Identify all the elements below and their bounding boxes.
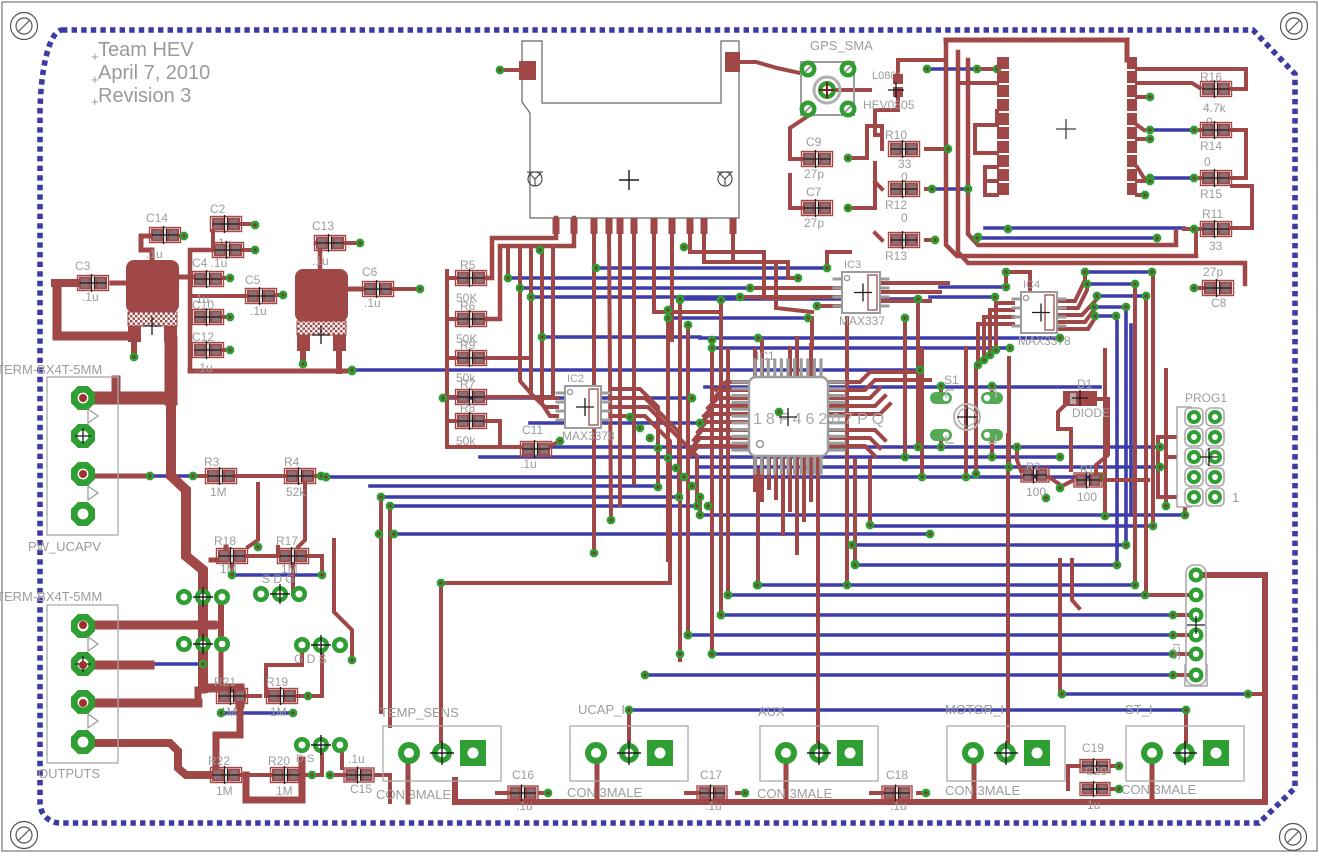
via [1190, 174, 1198, 182]
via [684, 631, 692, 639]
svg-text:IC3: IC3 [844, 259, 861, 271]
wire [1158, 435, 1186, 439]
via [986, 351, 994, 359]
wire [700, 414, 749, 424]
via [226, 313, 234, 321]
wire [147, 474, 193, 478]
wire [984, 317, 1013, 360]
resistor R14 [1201, 123, 1232, 138]
wire [757, 583, 1135, 587]
svg-text:CON 3MALE: CON 3MALE [376, 787, 451, 802]
svg-text:TERM-BX4T-5MM: TERM-BX4T-5MM [0, 589, 102, 604]
via [1182, 706, 1190, 714]
wire [920, 350, 924, 477]
svg-text:50k: 50k [456, 434, 476, 448]
svg-text:R22: R22 [208, 754, 230, 768]
wire [926, 147, 948, 151]
via [688, 482, 696, 490]
wire [990, 386, 994, 393]
svg-text:.1u: .1u [364, 296, 381, 310]
wire [880, 281, 948, 285]
wire [218, 605, 224, 625]
wire [1056, 316, 1095, 329]
wire [352, 368, 920, 372]
wire [618, 232, 622, 505]
wire [447, 395, 456, 399]
wire [712, 652, 1173, 656]
wire [1006, 272, 1030, 290]
svg-text:+: + [91, 49, 99, 64]
via [664, 454, 672, 462]
wire [750, 286, 842, 290]
wire [248, 547, 278, 556]
via [1146, 93, 1154, 101]
wire [211, 547, 226, 560]
wire [788, 348, 792, 377]
mounting hole [11, 822, 38, 849]
wire [918, 791, 926, 795]
wire [83, 699, 198, 708]
wire [940, 285, 1006, 289]
svg-text:.1u: .1u [196, 361, 213, 375]
svg-text:R5: R5 [460, 258, 476, 272]
svg-text:R16: R16 [1200, 70, 1222, 84]
resistor R21 [217, 689, 248, 704]
wire [760, 456, 764, 500]
transistor Q3 (DPAK) [126, 260, 179, 313]
via [672, 464, 680, 472]
via [289, 709, 297, 717]
wire [83, 392, 171, 405]
svg-text:.1u: .1u [348, 752, 365, 766]
wire [977, 236, 1157, 240]
via [189, 472, 197, 480]
SD pins [553, 218, 560, 234]
wire [845, 318, 849, 585]
via [348, 366, 356, 374]
wire [704, 406, 749, 416]
via [1142, 292, 1150, 300]
capacitor C16 [508, 786, 538, 800]
svg-text:R21: R21 [214, 675, 236, 689]
via [991, 293, 999, 301]
wire [809, 345, 813, 377]
wire [1137, 179, 1150, 183]
via [708, 650, 716, 658]
via [717, 611, 725, 619]
wire [700, 513, 1185, 517]
wire [670, 232, 674, 340]
via [914, 443, 922, 451]
via [536, 246, 544, 254]
via [823, 264, 831, 272]
wire [312, 745, 322, 775]
capacitor C17 [697, 786, 727, 800]
wire [455, 780, 1265, 802]
transistor pads Q [296, 739, 308, 751]
wire [1173, 613, 1188, 617]
via [592, 264, 600, 272]
wire [1145, 593, 1188, 597]
capacitor C20 [1080, 783, 1110, 796]
wire [760, 340, 764, 377]
via [1083, 280, 1091, 288]
wire [753, 350, 757, 377]
svg-text:ST_I: ST_I [1125, 702, 1152, 717]
wire [848, 163, 875, 208]
wire [298, 645, 322, 696]
capacitor C5 [246, 289, 277, 304]
via [1122, 303, 1130, 311]
via [636, 424, 644, 432]
wire [447, 356, 456, 360]
svg-text:R7: R7 [460, 377, 476, 391]
wire [964, 348, 968, 477]
via [590, 549, 598, 557]
wire [1164, 370, 1168, 506]
via [988, 382, 996, 390]
via [1013, 443, 1021, 451]
via [254, 543, 262, 551]
via [993, 65, 1001, 73]
wire [248, 694, 260, 698]
via [717, 296, 725, 304]
svg-text:OUTPUTS: OUTPUTS [38, 766, 100, 781]
mounting hole [1281, 13, 1308, 40]
wire [712, 346, 1010, 350]
via [804, 314, 812, 322]
wire [690, 633, 1173, 637]
svg-text:Revision 3: Revision 3 [98, 85, 191, 107]
wire [680, 297, 918, 301]
wire [388, 506, 392, 726]
wire [232, 573, 322, 577]
wire [990, 310, 1013, 355]
via [496, 66, 504, 74]
svg-text:S1: S1 [944, 373, 959, 387]
wire [1058, 404, 1071, 470]
svg-text:33: 33 [898, 157, 912, 171]
svg-text:C19: C19 [1082, 741, 1104, 755]
svg-text:CON 3MALE: CON 3MALE [945, 783, 1020, 798]
via [736, 293, 744, 301]
svg-text:TERM-BX4T-5MM: TERM-BX4T-5MM [0, 362, 102, 377]
svg-text:CON 3MALE: CON 3MALE [567, 785, 642, 800]
via [717, 611, 725, 619]
wire [487, 356, 531, 360]
wire [722, 613, 1173, 617]
via [746, 284, 754, 292]
svg-text:CON 3MALE: CON 3MALE [1121, 782, 1196, 797]
resistor R18 [217, 549, 248, 564]
wire [222, 315, 226, 319]
svg-text:C6: C6 [362, 265, 378, 279]
via [556, 437, 564, 445]
via [992, 346, 1000, 354]
svg-text:C15: C15 [350, 782, 372, 796]
wire [1151, 272, 1155, 526]
via [626, 413, 634, 421]
wire [447, 317, 456, 321]
via [1096, 473, 1104, 481]
via [684, 631, 692, 639]
wire [810, 318, 814, 348]
via [972, 470, 980, 478]
wire [340, 745, 344, 768]
resistor R19 [267, 689, 298, 704]
wire [1194, 128, 1200, 132]
wire [334, 540, 352, 660]
wire [487, 218, 574, 319]
wire [326, 475, 1100, 479]
wire [1095, 314, 1116, 318]
wire [487, 421, 523, 447]
svg-text:1M: 1M [216, 784, 233, 798]
svg-text:R4: R4 [284, 455, 300, 469]
resistor R3 [206, 469, 237, 484]
wire [406, 760, 411, 802]
wire [974, 367, 978, 474]
wire [222, 276, 226, 280]
svg-text:R9: R9 [460, 338, 476, 352]
via [676, 295, 684, 303]
via [348, 656, 356, 664]
wire [1156, 437, 1160, 497]
wire [300, 354, 306, 364]
wire [733, 232, 798, 278]
svg-text:1M: 1M [270, 705, 287, 719]
wire [788, 456, 792, 510]
wire [880, 299, 930, 303]
svg-text:SCI: SCI [1172, 643, 1183, 660]
via [625, 706, 633, 714]
wire [1194, 176, 1200, 180]
via [607, 516, 615, 524]
svg-text:52k: 52k [286, 485, 306, 499]
svg-text:R10: R10 [885, 128, 907, 142]
wire [1173, 673, 1188, 677]
wire [828, 438, 880, 448]
wire [211, 231, 215, 248]
wire [719, 300, 723, 615]
wire [1231, 186, 1252, 228]
via [322, 473, 330, 481]
svg-text:C18: C18 [886, 768, 908, 782]
via [974, 361, 982, 369]
via [308, 771, 316, 779]
wire [939, 441, 943, 447]
wire [531, 295, 740, 299]
via [1162, 502, 1170, 510]
wire [344, 241, 356, 245]
svg-text:R1: R1 [1080, 464, 1094, 476]
wire [190, 369, 352, 374]
svg-text:R6: R6 [460, 299, 476, 313]
via [680, 243, 688, 251]
svg-text:TEMP_SENS: TEMP_SENS [380, 705, 459, 720]
wire [926, 238, 935, 242]
via [851, 561, 859, 569]
wire [394, 287, 416, 291]
via [538, 333, 546, 341]
svg-text:MAX3378: MAX3378 [562, 429, 615, 443]
svg-text:C9: C9 [806, 135, 822, 149]
wire [83, 621, 213, 630]
via [544, 789, 552, 797]
wire [927, 187, 968, 191]
wire [809, 456, 813, 500]
svg-text:IC4: IC4 [1023, 279, 1040, 291]
via [964, 185, 972, 193]
via [416, 285, 424, 293]
via [664, 306, 672, 314]
wire [1112, 787, 1119, 791]
svg-text:.1u: .1u [890, 799, 907, 813]
svg-text:R19: R19 [266, 675, 288, 689]
via [654, 483, 662, 491]
wire [1094, 305, 1126, 309]
wire [276, 293, 279, 297]
via [775, 408, 783, 416]
svg-text:C11: C11 [522, 423, 543, 437]
wire [1062, 692, 1248, 696]
svg-text:1M: 1M [276, 784, 293, 798]
wire [447, 419, 456, 423]
svg-text:GPS_SMA: GPS_SMA [810, 38, 873, 53]
wire [802, 456, 806, 520]
via [813, 302, 821, 310]
wire [542, 335, 700, 339]
via [1056, 484, 1064, 492]
wire [990, 441, 994, 457]
via [504, 274, 512, 282]
via [1156, 463, 1164, 471]
capacitor C14 [150, 228, 181, 243]
svg-text:R11: R11 [1202, 207, 1223, 221]
via [988, 453, 996, 461]
via [1091, 312, 1099, 320]
svg-text:0: 0 [1204, 155, 1211, 169]
wire [503, 68, 519, 72]
via [680, 473, 688, 481]
wire [520, 246, 557, 398]
wire [131, 342, 137, 357]
via [1141, 591, 1149, 599]
via [1042, 494, 1050, 502]
svg-text:.1u: .1u [516, 799, 533, 813]
svg-text:.1u: .1u [82, 290, 99, 304]
via [1146, 135, 1154, 143]
svg-text:1u: 1u [1087, 798, 1100, 812]
wire [870, 524, 1153, 528]
via [304, 692, 312, 700]
wire [1137, 83, 1200, 88]
via [180, 232, 188, 240]
via [1169, 650, 1177, 658]
svg-text:R3: R3 [204, 455, 220, 469]
wire [848, 126, 882, 158]
op-amp IC2 (MAX3378) [557, 392, 565, 395]
svg-text:R8: R8 [460, 401, 476, 415]
wire [985, 165, 997, 169]
wire [165, 343, 178, 399]
wire [193, 474, 207, 478]
wire [83, 474, 147, 479]
wire [1137, 95, 1150, 99]
via [684, 321, 692, 329]
wire [690, 232, 808, 298]
svg-text:April 7, 2010: April 7, 2010 [98, 62, 210, 84]
via [901, 453, 909, 461]
transistor pads Q [178, 638, 190, 650]
wire [828, 404, 890, 414]
wire [726, 350, 730, 595]
svg-text:D S: D S [296, 753, 314, 765]
via [375, 530, 383, 538]
wire [241, 222, 251, 226]
wire [740, 295, 842, 299]
wire [394, 532, 930, 536]
wire [629, 708, 1186, 712]
wire [301, 773, 312, 777]
wire [190, 294, 246, 298]
svg-text:R17: R17 [276, 534, 298, 548]
svg-text:+: + [91, 72, 99, 87]
wire [690, 446, 749, 456]
wire [542, 246, 557, 416]
mounting hole [11, 13, 38, 40]
via [377, 493, 385, 501]
via [937, 443, 945, 451]
wire [83, 743, 211, 775]
wire [201, 605, 206, 625]
wire [530, 421, 700, 425]
wire [972, 760, 977, 802]
via [317, 472, 325, 480]
via [318, 571, 326, 579]
resistor R17 [278, 549, 309, 564]
wire [348, 287, 362, 292]
svg-text:4.7k: 4.7k [1203, 101, 1227, 115]
wire [817, 304, 842, 308]
via [1090, 303, 1098, 311]
via [866, 521, 874, 529]
wire [1096, 399, 1108, 474]
wire [1056, 284, 1087, 308]
via [1112, 312, 1120, 320]
wire [596, 266, 827, 270]
via [439, 394, 447, 402]
wire [595, 760, 600, 802]
wire [1066, 766, 1070, 789]
via [654, 444, 662, 452]
SD hole right [718, 172, 732, 186]
wire [1150, 176, 1194, 180]
wire [916, 299, 920, 447]
wire [700, 336, 1060, 340]
via [279, 291, 287, 299]
via [228, 571, 236, 579]
wire [898, 60, 946, 74]
via [1146, 174, 1154, 182]
via [973, 65, 981, 73]
via [676, 296, 684, 304]
wire [480, 455, 1060, 459]
via [944, 145, 952, 153]
wire [1133, 284, 1137, 585]
wire [983, 67, 997, 71]
wire [704, 232, 812, 312]
